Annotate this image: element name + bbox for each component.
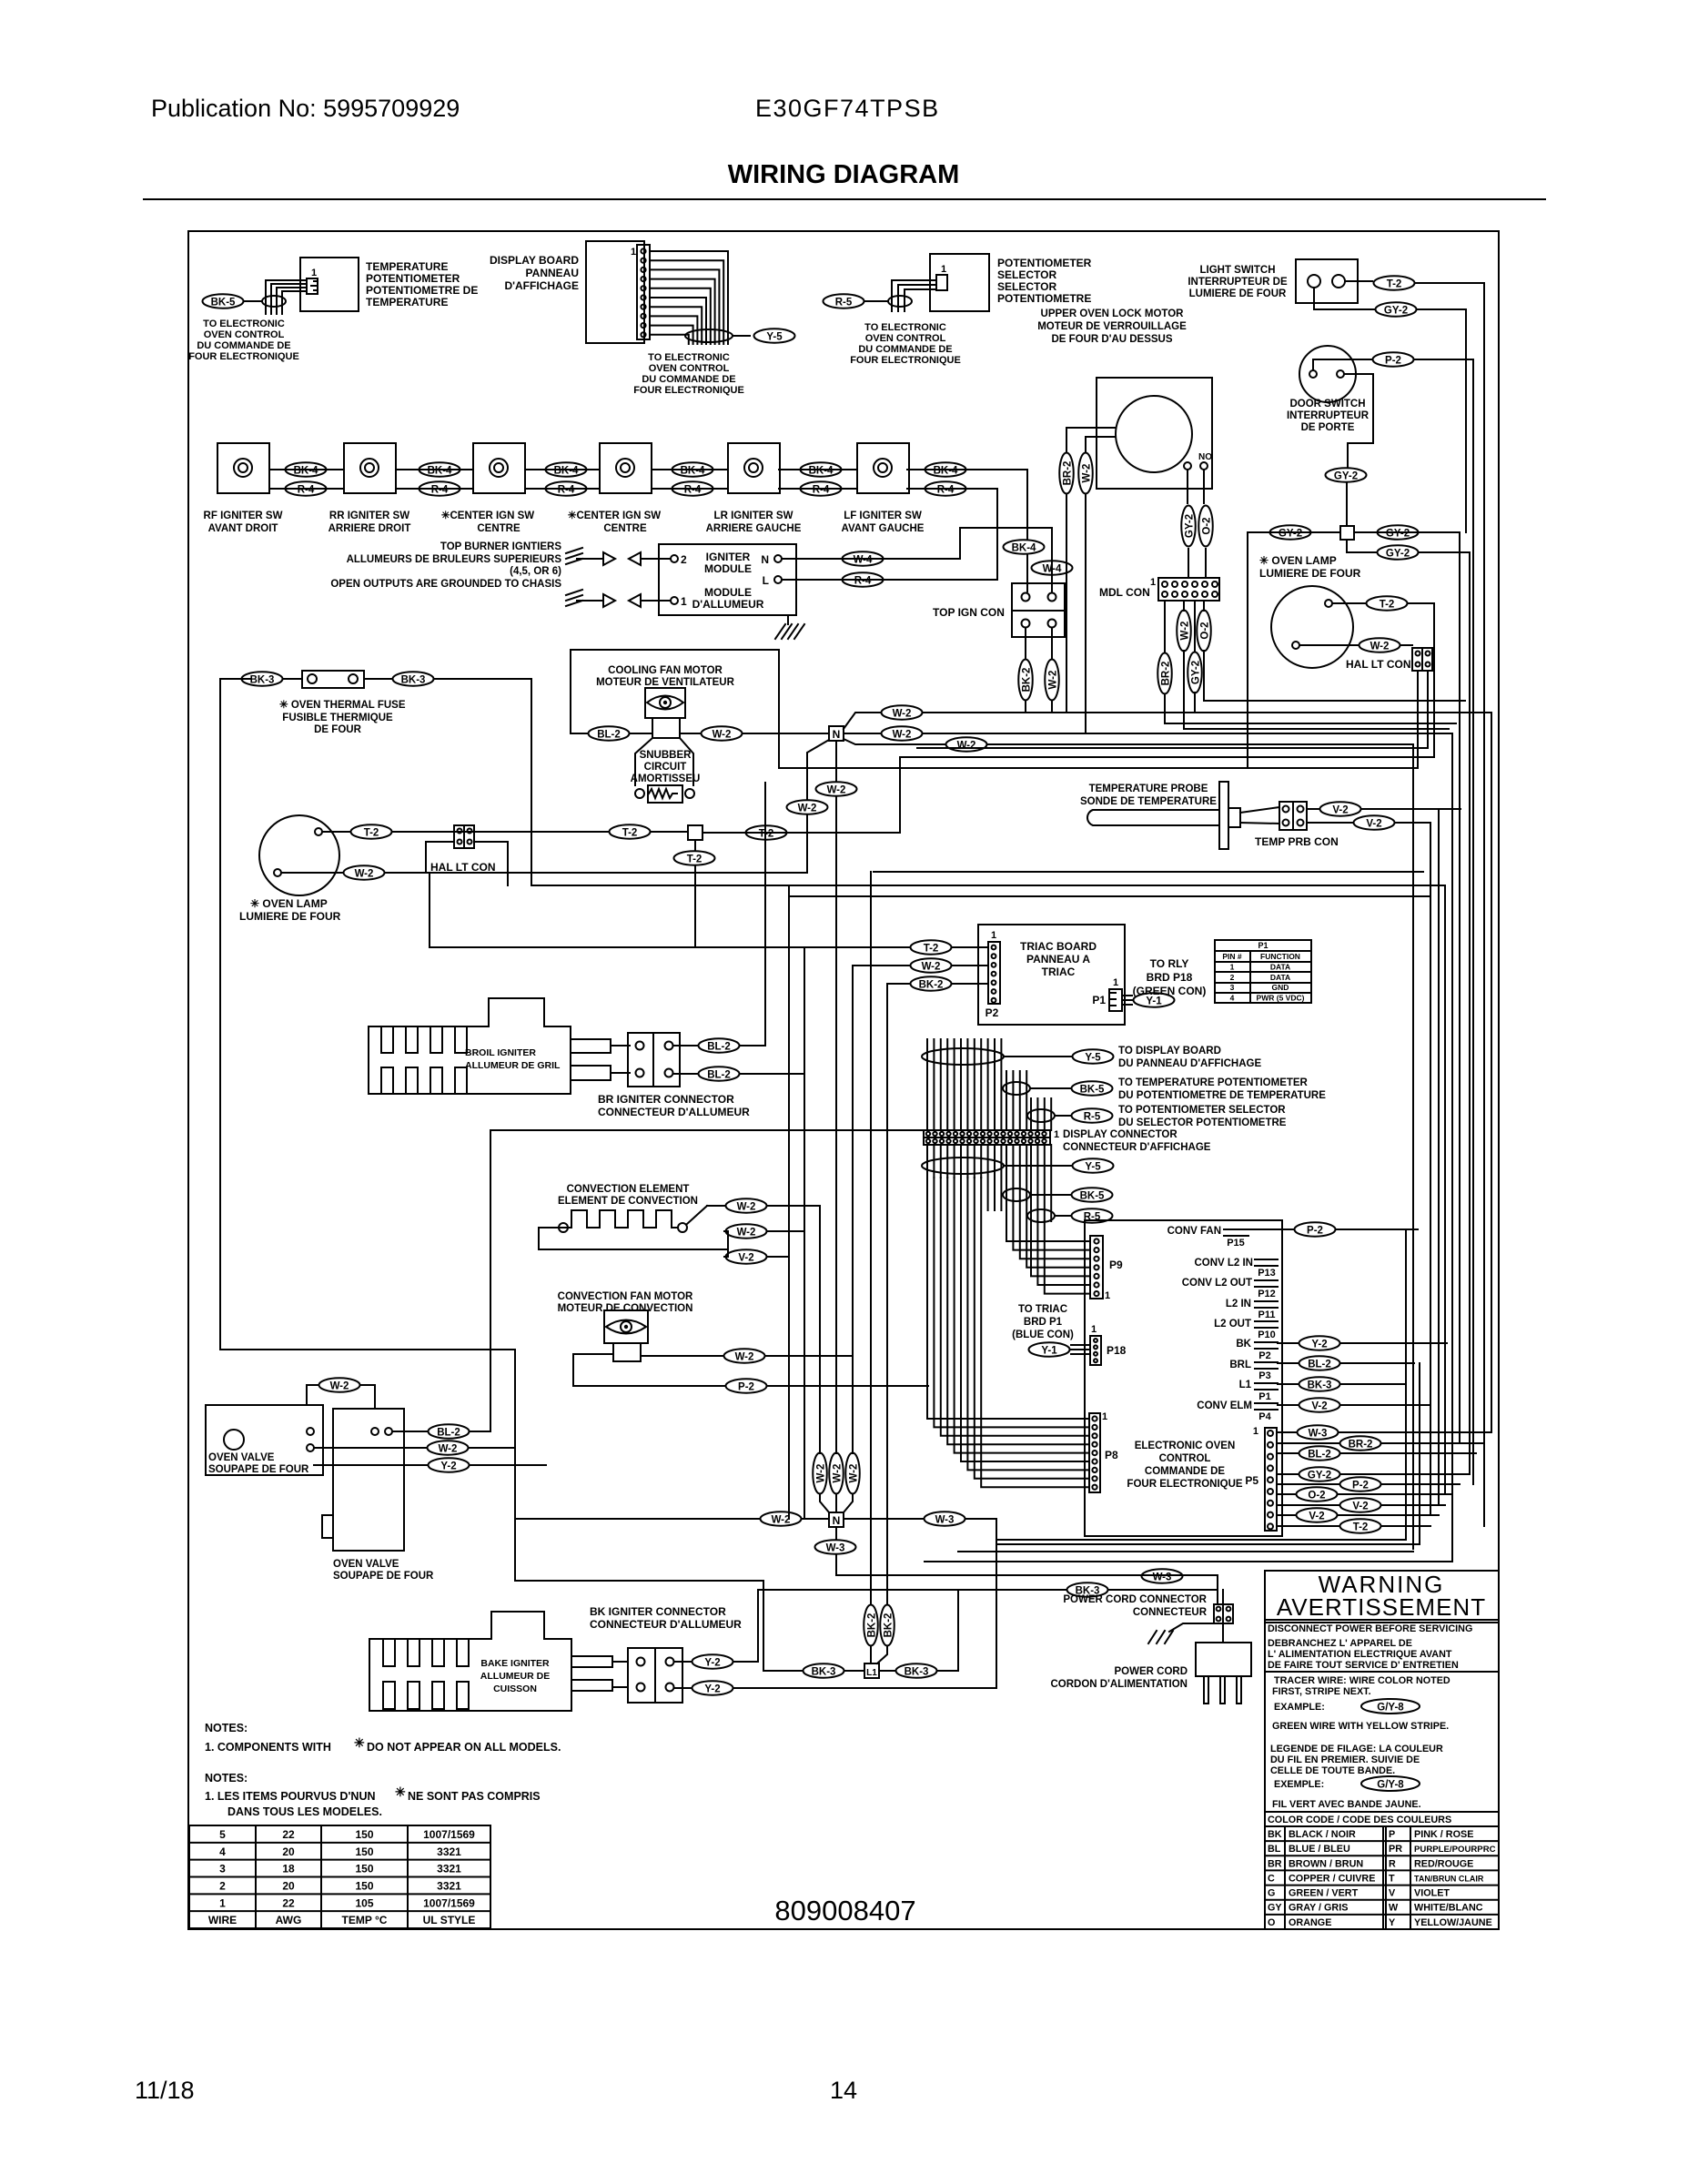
svg-text:TEMPERATURE PROBE: TEMPERATURE PROBE [1089, 784, 1208, 794]
svg-text:RF IGNITER SW: RF IGNITER SW [204, 511, 283, 521]
display bundle oval upper [922, 1048, 1004, 1065]
svg-text:P-2: P-2 [1307, 1226, 1323, 1237]
wire GY-2 below MDL CON down [1194, 693, 1196, 713]
power cord ground symbol [1169, 1623, 1214, 1632]
svg-text:W-3: W-3 [1153, 1572, 1172, 1583]
svg-text:150: 150 [355, 1880, 373, 1893]
bake igniter fingers [383, 1639, 395, 1666]
trunk 539 up to display connector [490, 1130, 924, 1431]
oval BK-4 [286, 462, 327, 477]
P18 connector [1090, 1336, 1101, 1365]
wires above BK-2 ovals [870, 872, 872, 1603]
svg-text:BLACK / NOIR: BLACK / NOIR [1289, 1829, 1356, 1840]
bake igniter body [369, 1612, 571, 1711]
wire P4 to V-2 [1278, 1404, 1298, 1406]
svg-text:BK-5: BK-5 [211, 298, 236, 308]
bundle3 oval lower [1027, 1209, 1055, 1222]
svg-text:ALLUMEUR DE GRIL: ALLUMEUR DE GRIL [465, 1060, 561, 1071]
wire stubs to BR connector [611, 1045, 630, 1046]
oval T-2 (mid) [610, 824, 651, 839]
bundle 3 oval [1027, 1109, 1055, 1122]
svg-text:W-2: W-2 [893, 709, 912, 720]
wire BK-4 chain between igniter switches [269, 469, 344, 470]
svg-text:HAL LT CON: HAL LT CON [430, 861, 496, 874]
svg-text:V-2: V-2 [738, 1253, 753, 1264]
svg-text:BK-3: BK-3 [905, 1667, 929, 1678]
wire door switch to GY-2 chain [1344, 374, 1373, 467]
svg-text:O: O [1268, 1917, 1275, 1928]
oval BK-4 [546, 462, 587, 477]
svg-text:UL STYLE: UL STYLE [423, 1914, 476, 1926]
svg-text:CONV L2 IN: CONV L2 IN [1194, 1258, 1253, 1269]
wires Y-1 to P18 [1071, 1344, 1090, 1346]
svg-text:WIRING DIAGRAM: WIRING DIAGRAM [728, 160, 960, 189]
wire W-2 lamp drop to T-2 line [429, 873, 430, 947]
svg-text:R-5: R-5 [835, 298, 853, 308]
svg-text:W-2: W-2 [713, 730, 732, 741]
wire P5 V-2 [1277, 1504, 1339, 1506]
oven valve box tab [322, 1515, 333, 1538]
snubber circuit lines [635, 738, 652, 785]
svg-text:P2: P2 [986, 1006, 999, 1019]
svg-text:W-2: W-2 [833, 1464, 844, 1483]
svg-text:RR IGNITER SW: RR IGNITER SW [329, 511, 409, 521]
potentiometer selector box [930, 254, 989, 311]
trunk top hook horizontals [1396, 283, 1484, 823]
svg-text:FOUR ELECTRONIQUE: FOUR ELECTRONIQUE [850, 355, 961, 366]
oval W-2 (cooling fan) [702, 726, 743, 741]
svg-text:1. COMPONENTS WITH: 1. COMPONENTS WITH [205, 1741, 331, 1754]
svg-text:BK-4: BK-4 [294, 466, 318, 477]
svg-text:CENTRE: CENTRE [477, 523, 521, 534]
svg-text:R-4: R-4 [854, 576, 872, 587]
TEMP PRB CON connector [1279, 802, 1307, 830]
svg-text:TO ELECTRONIC: TO ELECTRONIC [203, 318, 285, 329]
wires below MDL CON [1183, 601, 1185, 611]
svg-text:R-4: R-4 [684, 485, 702, 496]
svg-text:Y-2: Y-2 [704, 1684, 720, 1695]
wire light switch to T-2 [1345, 280, 1372, 282]
wires to temperature potentiometer connector [266, 280, 307, 314]
P9 connector [1090, 1236, 1103, 1299]
wire P5 T-2 [1277, 1525, 1339, 1527]
TOP IGN CON box [1012, 583, 1065, 637]
vertical oval W-2 (lock motor) [1078, 453, 1093, 494]
svg-text:D'AFFICHAGE: D'AFFICHAGE [504, 279, 579, 292]
oval BK-5 (lower) [1072, 1188, 1113, 1202]
svg-text:GY-2: GY-2 [1279, 529, 1302, 540]
wires P1 to Y-1 [1122, 995, 1132, 996]
svg-text:W-2: W-2 [1180, 622, 1191, 641]
svg-text:T-2: T-2 [1380, 600, 1395, 611]
P5 connector [1265, 1428, 1277, 1531]
wire N to W-2 row upper [844, 713, 880, 729]
wire below W-3 to power cord connector [836, 1574, 1218, 1576]
svg-text:TO ELECTRONIC: TO ELECTRONIC [864, 322, 946, 333]
wire BL-2 (oven valve) [392, 1431, 427, 1432]
svg-text:18: 18 [282, 1863, 295, 1876]
svg-text:CENTRE: CENTRE [603, 523, 647, 534]
svg-text:G/Y-8: G/Y-8 [1377, 1780, 1404, 1791]
wire BL-2 bottom (broil) [673, 1073, 697, 1075]
wire P5 W-3 [1277, 1431, 1296, 1433]
wires NO terminals down [1187, 470, 1188, 503]
oval BL-2 (P5) [1299, 1446, 1340, 1461]
oval V-2 (temp probe 1) [1320, 802, 1361, 816]
temperature probe neck [1228, 808, 1240, 827]
wire W-2 below MDL CON to right [1184, 651, 1449, 729]
svg-text:4: 4 [219, 1845, 226, 1858]
svg-text:DE FOUR D'AU DESSUS: DE FOUR D'AU DESSUS [1051, 334, 1172, 345]
svg-text:OVEN VALVE: OVEN VALVE [208, 1452, 275, 1463]
svg-text:SONDE DE TEMPERATURE: SONDE DE TEMPERATURE [1080, 796, 1217, 807]
oven valve solenoid circle [224, 1430, 244, 1450]
svg-text:V-2: V-2 [1352, 1501, 1368, 1512]
svg-text:T-2: T-2 [1353, 1522, 1369, 1533]
wire oven lamp T-2 [1332, 602, 1365, 604]
svg-text:W-4: W-4 [854, 555, 873, 566]
svg-text:809008407: 809008407 [774, 1895, 915, 1926]
wire W-2 cooling fan [680, 733, 700, 734]
svg-text:GREEN WIRE WITH YELLOW STRIPE.: GREEN WIRE WITH YELLOW STRIPE. [1272, 1721, 1449, 1732]
svg-text:IGNITER: IGNITER [706, 551, 751, 563]
svg-text:LIGHT SWITCH: LIGHT SWITCH [1199, 265, 1275, 276]
svg-text:2: 2 [681, 553, 687, 566]
svg-text:2: 2 [219, 1880, 226, 1893]
oval W-2 (conv elem 2) [726, 1224, 767, 1239]
lock motor circle [1116, 396, 1192, 472]
oval Y-5 (to display board) [1073, 1049, 1114, 1064]
igniter switch RR IGNITER SW ARRIERE DROIT [344, 443, 396, 493]
svg-text:GND: GND [1272, 983, 1289, 992]
oval BK-3 (power cord) [1067, 1582, 1108, 1597]
svg-text:L2 OUT: L2 OUT [1214, 1319, 1251, 1330]
oval GY-2 (door chain) [1326, 468, 1367, 482]
igniter module terminal 2 [671, 555, 678, 562]
svg-text:O-2: O-2 [1200, 622, 1211, 639]
wire T-2 up to return line [899, 757, 901, 833]
svg-text:DE FOUR: DE FOUR [314, 724, 361, 735]
wire T-2 junction down [694, 840, 696, 850]
svg-text:EXAMPLE:: EXAMPLE: [1274, 1702, 1325, 1713]
svg-text:R-4: R-4 [558, 485, 575, 496]
oval W-2 (oven lamp right) [1359, 638, 1400, 652]
svg-text:Y-5: Y-5 [1085, 1053, 1101, 1064]
svg-text:P12: P12 [1258, 1289, 1276, 1299]
wire left trunk from fuse [220, 679, 763, 1671]
svg-text:P9: P9 [1109, 1259, 1123, 1271]
svg-text:FIRST, STRIPE NEXT.: FIRST, STRIPE NEXT. [1272, 1686, 1371, 1697]
oval R-4 [546, 481, 587, 496]
svg-text:1007/1569: 1007/1569 [423, 1896, 475, 1909]
wire trunk 867 [788, 885, 790, 1519]
vertical oval BR-2 (lock motor) [1059, 453, 1074, 494]
vertical oval W-2 (below MDL CON) [1177, 611, 1191, 652]
svg-text:TEMPERATURE: TEMPERATURE [366, 296, 448, 308]
wire BR-2 down [1066, 495, 1067, 712]
svg-text:LR IGNITER SW: LR IGNITER SW [714, 511, 793, 521]
svg-text:CONV FAN: CONV FAN [1167, 1226, 1221, 1237]
oval R-4 [286, 481, 327, 496]
svg-text:R: R [1389, 1858, 1396, 1869]
svg-text:G: G [1268, 1888, 1275, 1899]
svg-text:PURPLE/POURPRC: PURPLE/POURPRC [1414, 1845, 1496, 1855]
svg-text:BL-2: BL-2 [707, 1042, 731, 1053]
svg-text:BRD P1: BRD P1 [1024, 1317, 1063, 1328]
wire igniter module N to top ign con [782, 528, 1052, 591]
right trunk vertical wires [1406, 283, 1491, 1562]
svg-text:MOTEUR DE CONVECTION: MOTEUR DE CONVECTION [558, 1303, 693, 1314]
oval T-2 (lamp left) [351, 824, 392, 839]
oval V-2 (P4) [1299, 1398, 1340, 1412]
svg-text:FUNCTION: FUNCTION [1260, 952, 1300, 961]
oval GY-2 (P5) [1299, 1467, 1340, 1481]
svg-text:1: 1 [1102, 1411, 1107, 1422]
oven thermal fuse box [302, 671, 364, 688]
svg-text:1: 1 [681, 595, 687, 608]
svg-text:BK-5: BK-5 [1080, 1191, 1105, 1202]
wire cooling fan W-2 to N node [779, 733, 829, 734]
oval R-5 (to selector) [1072, 1108, 1113, 1123]
svg-text:P15: P15 [1227, 1238, 1245, 1249]
svg-text:2: 2 [1230, 973, 1235, 982]
wire V-2 lower [1307, 822, 1352, 824]
wire W-2 to HAL LT CON [426, 842, 454, 873]
wire Y-2 top (bake) [674, 1661, 691, 1663]
warning box [1265, 1571, 1499, 1929]
wire P5 GY-2 [1277, 1473, 1298, 1475]
svg-text:PR: PR [1389, 1844, 1402, 1855]
oval Y-1 (triac P1) [1134, 993, 1175, 1007]
svg-text:1: 1 [219, 1896, 226, 1909]
oval BL-2 (cooling fan) [589, 726, 630, 741]
convection element terminals [559, 1223, 568, 1232]
svg-text:Y-1: Y-1 [1146, 996, 1162, 1007]
power cord connector [1214, 1604, 1233, 1623]
oval V-2 (P5) [1340, 1498, 1381, 1512]
svg-text:W-2: W-2 [849, 1464, 860, 1483]
svg-text:EXEMPLE:: EXEMPLE: [1274, 1779, 1324, 1790]
wire HAL LT CON right side down [474, 842, 508, 885]
svg-text:T-2: T-2 [687, 854, 702, 865]
oval R-4 (module L) [843, 572, 884, 587]
svg-text:POWER CORD CONNECTOR: POWER CORD CONNECTOR [1063, 1594, 1207, 1605]
wire BK-3 left of L1 [763, 1670, 802, 1672]
wire Y-2 bottom (bake) [674, 1687, 691, 1689]
svg-text:TO POTENTIOMETER SELECTOR: TO POTENTIOMETER SELECTOR [1118, 1105, 1286, 1116]
svg-text:INTERRUPTEUR: INTERRUPTEUR [1287, 410, 1370, 421]
svg-text:TRIAC: TRIAC [1042, 966, 1076, 978]
svg-text:5: 5 [219, 1828, 226, 1841]
oval BK-3 (P1) [1299, 1377, 1340, 1391]
svg-text:✳ OVEN LAMP: ✳ OVEN LAMP [1259, 554, 1337, 567]
svg-text:VIOLET: VIOLET [1414, 1888, 1450, 1899]
svg-text:W-2: W-2 [1082, 464, 1093, 483]
oval Y-5 (lower) [1073, 1158, 1114, 1173]
light switch terminals [1308, 275, 1320, 288]
wire W-2 (oven valve) [314, 1447, 426, 1449]
wire P15 to P-2 [1248, 1228, 1293, 1230]
BK igniter connector box [628, 1648, 682, 1703]
svg-text:W-4: W-4 [1043, 564, 1062, 575]
svg-text:BL-2: BL-2 [707, 1070, 731, 1081]
svg-text:YELLOW/JAUNE: YELLOW/JAUNE [1414, 1917, 1492, 1928]
wire oven lamp W-2 [1299, 644, 1358, 646]
oven lamp left terminals [315, 828, 322, 835]
oval Y-2 (bake top) [692, 1654, 733, 1669]
oval P-2 (P5) [1340, 1477, 1381, 1491]
wire BL-2 cooling fan [571, 733, 587, 734]
svg-text:FOUR ELECTRONIQUE: FOUR ELECTRONIQUE [633, 385, 744, 396]
vertical oval BR-2 (below MDL CON) [1157, 653, 1172, 694]
igniter module ground symbol [787, 615, 789, 624]
svg-text:105: 105 [355, 1896, 373, 1909]
svg-text:SOUPAPE DE FOUR: SOUPAPE DE FOUR [333, 1571, 434, 1582]
svg-text:Y-5: Y-5 [1085, 1162, 1101, 1173]
svg-text:3321: 3321 [437, 1863, 461, 1876]
svg-text:L: L [763, 574, 769, 587]
wire T-2 into triac P2 [430, 946, 909, 948]
wire right BK-3 up to power cord line [957, 1590, 959, 1671]
svg-text:BK-2: BK-2 [1022, 668, 1033, 693]
svg-text:BR-2: BR-2 [1161, 662, 1172, 686]
color code table [1265, 1840, 1499, 1842]
svg-text:✳: ✳ [354, 1735, 365, 1750]
svg-text:ALLUMEUR DE: ALLUMEUR DE [480, 1671, 550, 1682]
oval P-2 (conv fan) [726, 1379, 767, 1393]
svg-text:COMMANDE DE: COMMANDE DE [1145, 1466, 1225, 1477]
oval BK-5 (to temp pot) [1072, 1081, 1113, 1096]
oval W-2 (conv fan) [724, 1349, 765, 1363]
svg-text:W-2: W-2 [798, 804, 817, 814]
wires lock motor to BR-2/W-2 [1066, 428, 1116, 451]
oval P-2 (door switch) [1373, 352, 1414, 367]
svg-text:L1: L1 [866, 1668, 877, 1678]
oval BK-3 (fuse left) [242, 672, 283, 686]
svg-text:P18: P18 [1107, 1344, 1127, 1357]
wire T-2 right trunk return [900, 603, 1434, 757]
igniter switch CENTER IGN SW CENTRE [600, 443, 652, 493]
svg-text:TO TRIAC: TO TRIAC [1018, 1304, 1067, 1315]
wires below TOP IGN CON [1025, 628, 1026, 659]
svg-text:W-2: W-2 [957, 741, 976, 752]
vertical oval W-2 (top ign con) [1045, 660, 1059, 701]
P8 connector [1089, 1413, 1100, 1492]
diagram border frame [188, 231, 1499, 1929]
svg-text:FOUR ELECTRONIQUE: FOUR ELECTRONIQUE [188, 351, 299, 362]
trunk W-2 down from triac wire [852, 966, 854, 1453]
svg-text:W-2: W-2 [893, 730, 912, 741]
potentiometer selector connector pins [936, 275, 947, 290]
svg-text:BR: BR [1268, 1858, 1282, 1869]
wire gauge table [189, 1825, 490, 1928]
wire GY-2 drop at 1371 [1247, 532, 1248, 768]
svg-text:SOUPAPE DE FOUR: SOUPAPE DE FOUR [208, 1464, 309, 1475]
svg-text:POTENTIOMETER: POTENTIOMETER [366, 272, 460, 285]
svg-text:Publication No: 5995709929: Publication No: 5995709929 [151, 95, 460, 122]
svg-text:DO NOT APPEAR ON ALL MODELS.: DO NOT APPEAR ON ALL MODELS. [367, 1741, 561, 1754]
wire to R-5 lower [1055, 1215, 1071, 1217]
svg-text:DE FAIRE TOUT SERVICE: DE FAIRE TOUT SERVICE D' ENTRETIEN [1268, 1660, 1459, 1671]
svg-text:1: 1 [1105, 1290, 1110, 1301]
svg-text:W-3: W-3 [826, 1543, 845, 1554]
svg-text:DEBRANCHEZ L' APPAREL DE: DEBRANCHEZ L' APPAREL DE [1268, 1638, 1412, 1649]
P8 fan-out wires [927, 1178, 1089, 1419]
svg-text:T-2: T-2 [924, 944, 939, 955]
oval W-3 (P5) [1298, 1425, 1339, 1440]
svg-text:LEGENDE DE FILAGE: LA COULEU: LEGENDE DE FILAGE: LA COULEUR [1270, 1744, 1443, 1754]
wire igniter module L to R-4 [782, 579, 997, 581]
vertical oval GY-2 (lock motor) [1181, 506, 1196, 547]
svg-text:CONTROL: CONTROL [1159, 1453, 1211, 1464]
wire N to W-2 row lower [844, 739, 945, 744]
oval BL-2 (broil top) [699, 1038, 740, 1053]
bundle 2 wires (4) [1006, 1071, 1007, 1130]
temperature probe body [1087, 810, 1219, 825]
wire W-2 oven valve top [307, 1385, 318, 1405]
svg-text:ELEMENT DE CONVECTION: ELEMENT DE CONVECTION [558, 1196, 698, 1207]
svg-text:W-2: W-2 [439, 1444, 458, 1455]
svg-text:POTENTIOMETER: POTENTIOMETER [997, 257, 1092, 269]
svg-text:GY: GY [1268, 1903, 1282, 1914]
wire P3 to BL-2 [1278, 1362, 1298, 1364]
oval O-2 (P5) [1297, 1487, 1338, 1501]
svg-text:20: 20 [282, 1880, 295, 1893]
svg-text:BK-3: BK-3 [250, 675, 275, 686]
oval GY-2 (junction right) [1378, 525, 1419, 540]
svg-text:ELECTRONIC OVEN: ELECTRONIC OVEN [1135, 1441, 1236, 1451]
oven valve box right [333, 1409, 404, 1551]
svg-text:PINK / ROSE: PINK / ROSE [1414, 1829, 1473, 1840]
oval W-2 (lamp left) [344, 865, 385, 880]
svg-text:BLUE / BLEU: BLUE / BLEU [1289, 1844, 1350, 1855]
svg-text:RED/ROUGE: RED/ROUGE [1414, 1858, 1473, 1869]
svg-text:R-4: R-4 [298, 485, 315, 496]
svg-text:R-4: R-4 [431, 485, 449, 496]
svg-text:TEMP °C: TEMP °C [342, 1914, 388, 1926]
wire junction left GY-2 [1248, 531, 1340, 533]
oval R-5 (lower) [1072, 1208, 1113, 1223]
svg-text:POTENTIOMETRE: POTENTIOMETRE [997, 292, 1091, 305]
svg-text:BL-2: BL-2 [437, 1428, 460, 1439]
oval BK-4 [672, 462, 713, 477]
wires BK-2 into L1 [870, 1647, 872, 1663]
svg-text:LUMIERE DE FOUR: LUMIERE DE FOUR [1189, 288, 1287, 299]
cooling fan motor square [652, 718, 680, 738]
svg-text:BL-2: BL-2 [597, 730, 621, 741]
svg-text:GY-2: GY-2 [1334, 471, 1358, 482]
svg-text:W-2: W-2 [1370, 642, 1390, 652]
svg-text:AVANT GAUCHE: AVANT GAUCHE [842, 523, 925, 534]
triac P1 connector [1109, 989, 1122, 1011]
wire R-5 to bundle [865, 300, 888, 302]
svg-text:T-2: T-2 [622, 828, 638, 839]
svg-text:P-2: P-2 [738, 1382, 754, 1393]
wire conv element V-2 [727, 1249, 729, 1257]
svg-text:DANS TOUS LES MODELES.: DANS TOUS LES MODELES. [227, 1805, 382, 1818]
svg-text:✳: ✳ [395, 1785, 406, 1799]
svg-text:1: 1 [1150, 577, 1156, 588]
svg-text:CORDON D'ALIMENTATION: CORDON D'ALIMENTATION [1050, 1679, 1188, 1690]
oven valve box left [206, 1405, 323, 1475]
svg-text:AVERTISSEMENT: AVERTISSEMENT [1277, 1593, 1486, 1621]
svg-text:BRL: BRL [1229, 1360, 1251, 1370]
svg-text:BK-2: BK-2 [919, 980, 944, 991]
svg-text:SELECTOR: SELECTOR [997, 280, 1056, 293]
oval W-3 (right of N) [925, 1512, 965, 1526]
wire bundle to Y-5 [733, 335, 750, 337]
svg-text:NOTES:: NOTES: [205, 1772, 248, 1785]
